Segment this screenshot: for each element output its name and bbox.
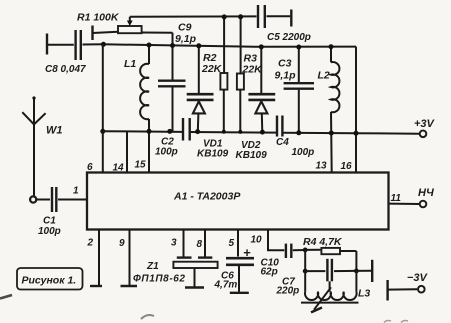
svg-text:Z1: Z1: [146, 261, 159, 272]
svg-text:10: 10: [251, 235, 263, 246]
svg-text:C1: C1: [43, 216, 56, 227]
svg-text:C4: C4: [276, 137, 289, 148]
pin 11 / НЧ output: [389, 187, 434, 207]
-3V terminal: [388, 272, 429, 301]
svg-text:1: 1: [73, 186, 79, 197]
svg-text:+3V: +3V: [414, 118, 436, 130]
svg-text:11: 11: [391, 193, 402, 204]
svg-text:13: 13: [316, 161, 328, 172]
node (C10/R4): [303, 248, 308, 253]
capacitor C1: [37, 187, 87, 237]
svg-text:Рисунок 1.: Рисунок 1.: [22, 275, 77, 287]
svg-text:−3V: −3V: [407, 272, 429, 284]
node C8/pin6: [101, 42, 106, 47]
svg-text:220p: 220p: [276, 286, 300, 297]
capacitor C6 (electrolytic): [214, 230, 255, 293]
svg-text:L2: L2: [318, 70, 330, 82]
svg-text:15: 15: [135, 160, 147, 171]
svg-text:A1 - TA2003P: A1 - TA2003P: [173, 191, 241, 203]
svg-text:C5 2200p: C5 2200p: [267, 32, 311, 43]
pin 2 ground stub: [87, 230, 103, 287]
antenna W1: [22, 96, 62, 196]
capacitor C8: [45, 30, 104, 75]
resistor R1 (potentiometer): [77, 12, 173, 46]
svg-text:C3: C3: [278, 58, 292, 70]
wire (pin 14 stub): [126, 131, 128, 172]
svg-text:C9: C9: [178, 22, 192, 34]
svg-text:4,7m: 4,7m: [214, 280, 238, 291]
+3V terminal: [414, 118, 436, 137]
capacitor C2: [155, 118, 190, 158]
capacitor C3: [275, 45, 315, 136]
svg-text:3: 3: [171, 238, 177, 249]
svg-text:22K: 22K: [242, 64, 264, 76]
inductor L1 / pin 15: [124, 43, 152, 173]
svg-text:R1 100K: R1 100K: [77, 12, 120, 24]
svg-text:62p: 62p: [261, 267, 278, 278]
svg-text:16: 16: [341, 161, 353, 172]
wire (pin 6 vertical): [102, 44, 104, 172]
pin 9 ground stub: [119, 230, 137, 287]
scan smudges: [0, 295, 408, 323]
svg-text:9,1p: 9,1p: [175, 33, 197, 45]
svg-text:9,1p: 9,1p: [275, 70, 297, 82]
filter Z1 ФП1П8-62: [133, 230, 218, 288]
svg-text:100p: 100p: [38, 226, 61, 237]
svg-text:9: 9: [119, 238, 125, 249]
svg-text:R4 4,7K: R4 4,7K: [303, 236, 343, 248]
svg-text:KB109: KB109: [236, 150, 268, 161]
resistor R3: [237, 14, 263, 134]
wire (pin 16 vertical): [355, 47, 357, 173]
antenna terminal: [30, 196, 36, 202]
svg-text:C8 0,047: C8 0,047: [45, 64, 86, 75]
resistor R2: [201, 14, 227, 133]
svg-text:5: 5: [229, 238, 235, 249]
svg-text:L3: L3: [358, 288, 370, 300]
inductor L3: [301, 271, 370, 313]
capacitor C4: [276, 116, 314, 159]
svg-text:НЧ: НЧ: [418, 187, 434, 199]
figure label box: [17, 268, 83, 290]
svg-text:22K: 22K: [201, 63, 223, 75]
varicap VD2 KB109: [236, 44, 276, 161]
svg-text:100p: 100p: [155, 147, 178, 158]
wire (main top rail): [103, 44, 356, 47]
svg-text:KB109: KB109: [197, 149, 229, 160]
svg-text:8: 8: [197, 239, 203, 250]
svg-text:+: +: [243, 245, 251, 260]
svg-text:100p: 100p: [292, 147, 315, 158]
svg-text:L1: L1: [124, 58, 136, 70]
wire (tank bottom rail to +3V): [103, 131, 420, 134]
wire (tuning voltage, top): [130, 15, 257, 17]
varicap VD1 KB109: [187, 43, 229, 159]
svg-text:W1: W1: [46, 125, 63, 137]
capacitor C5: [258, 5, 311, 43]
svg-text:2: 2: [87, 238, 94, 249]
capacitor C9: [158, 22, 197, 134]
inductor L2 / pin 13: [318, 44, 340, 172]
wire (R4 lower rail): [303, 250, 372, 282]
op IC A1 TA2003P: [87, 173, 389, 230]
svg-text:6: 6: [87, 162, 93, 173]
resistor R4: [303, 236, 356, 271]
capacitor C10: [251, 230, 306, 278]
svg-text:ФП1П8-62: ФП1П8-62: [133, 274, 186, 285]
svg-text:14: 14: [113, 163, 125, 174]
capacitor C7: [276, 259, 332, 297]
